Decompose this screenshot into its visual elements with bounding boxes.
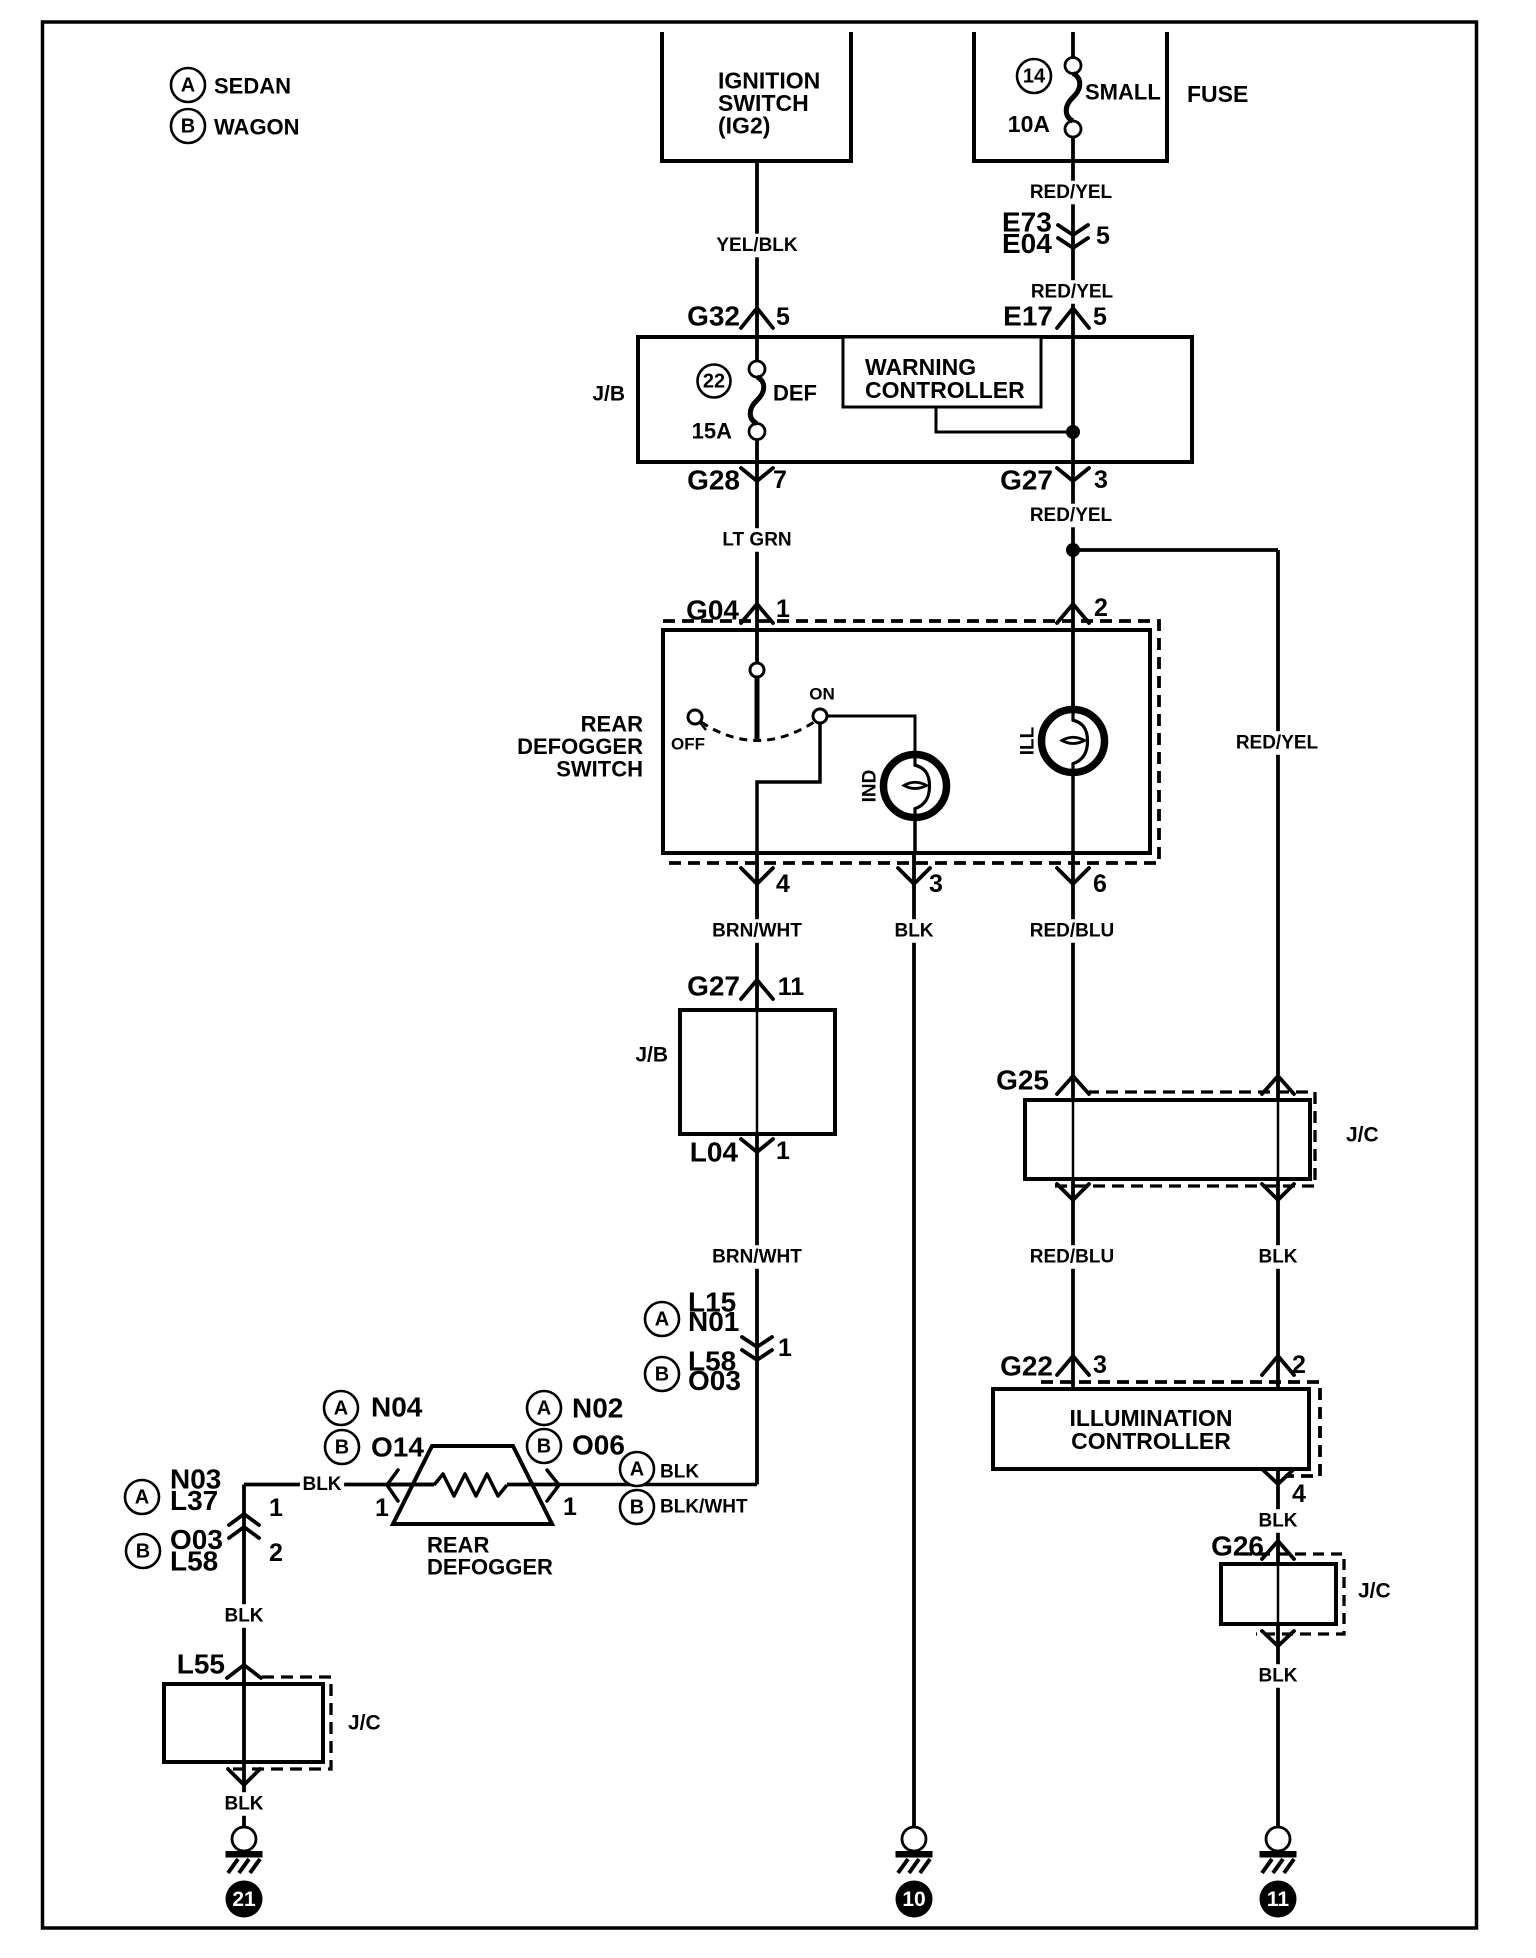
svg-text:O03: O03 [688,1365,741,1396]
svg-text:1: 1 [269,1494,283,1522]
svg-text:J/C: J/C [348,1712,381,1735]
svg-text:BLK: BLK [224,1794,263,1815]
svg-text:11: 11 [778,973,805,1001]
svg-text:O14: O14 [371,1432,424,1463]
svg-text:RED/BLU: RED/BLU [1030,921,1114,942]
svg-text:J/B: J/B [635,1044,668,1067]
svg-text:OFF: OFF [671,735,705,754]
svg-text:A: A [655,1309,669,1331]
svg-text:A: A [537,1398,551,1420]
svg-text:J/B: J/B [592,383,625,406]
svg-text:B: B [630,1497,644,1519]
svg-text:10: 10 [902,1888,925,1911]
svg-text:YEL/BLK: YEL/BLK [716,235,798,256]
svg-text:(IG2): (IG2) [718,113,770,139]
svg-text:6: 6 [1093,870,1107,898]
svg-text:RED/YEL: RED/YEL [1031,282,1114,303]
svg-text:3: 3 [1094,466,1108,494]
svg-text:4: 4 [1292,1480,1306,1508]
svg-text:RED/YEL: RED/YEL [1030,505,1113,526]
svg-text:3: 3 [1093,1351,1107,1379]
svg-text:RED/YEL: RED/YEL [1030,182,1113,203]
svg-text:CONTROLLER: CONTROLLER [1071,1428,1231,1454]
svg-text:BLK: BLK [1258,1511,1297,1532]
svg-text:15A: 15A [692,419,732,444]
svg-text:DEF: DEF [773,381,817,406]
svg-text:22: 22 [703,371,725,393]
svg-text:N02: N02 [572,1393,623,1424]
svg-text:1: 1 [778,1334,792,1362]
svg-text:4: 4 [776,870,790,898]
svg-text:REAR: REAR [581,712,643,737]
svg-text:WAGON: WAGON [214,115,300,140]
svg-text:E04: E04 [1002,228,1052,259]
svg-text:RED/YEL: RED/YEL [1236,733,1319,754]
svg-text:N01: N01 [688,1306,739,1337]
svg-text:IND: IND [860,770,881,803]
svg-text:G25: G25 [996,1065,1049,1096]
svg-text:1: 1 [563,1493,577,1521]
svg-text:SEDAN: SEDAN [214,74,291,99]
svg-text:G27: G27 [1000,465,1053,496]
svg-text:G28: G28 [687,465,740,496]
svg-text:21: 21 [232,1888,256,1911]
svg-text:ILL: ILL [1018,726,1039,755]
svg-text:A: A [181,75,195,97]
svg-text:BRN/WHT: BRN/WHT [712,921,802,942]
svg-text:J/C: J/C [1358,1580,1391,1603]
svg-text:FUSE: FUSE [1187,81,1248,107]
svg-text:BLK: BLK [1258,1247,1297,1268]
svg-text:E17: E17 [1003,301,1053,332]
svg-text:2: 2 [269,1539,283,1567]
svg-text:N04: N04 [371,1392,423,1423]
svg-text:L58: L58 [170,1546,218,1577]
svg-text:G32: G32 [687,301,740,332]
svg-text:G22: G22 [1000,1351,1053,1382]
svg-text:11: 11 [1267,1888,1290,1911]
svg-text:RED/BLU: RED/BLU [1030,1247,1114,1268]
svg-text:2: 2 [1292,1351,1306,1379]
svg-text:SWITCH: SWITCH [556,757,643,782]
svg-text:BLK: BLK [302,1474,341,1495]
svg-text:3: 3 [929,870,943,898]
svg-text:BLK: BLK [894,921,933,942]
svg-text:1: 1 [776,595,790,623]
svg-text:B: B [655,1364,669,1386]
svg-text:B: B [136,1541,150,1563]
svg-text:BLK: BLK [224,1606,263,1627]
svg-text:1: 1 [375,1494,389,1522]
svg-text:L04: L04 [690,1137,739,1168]
svg-text:1: 1 [776,1137,790,1165]
svg-text:DEFOGGER: DEFOGGER [427,1555,553,1580]
svg-text:5: 5 [1096,222,1110,250]
svg-text:ON: ON [809,685,835,704]
svg-text:14: 14 [1023,66,1046,88]
svg-text:B: B [181,116,195,138]
svg-text:BRN/WHT: BRN/WHT [712,1247,802,1268]
svg-text:A: A [630,1459,644,1481]
svg-text:2: 2 [1094,594,1108,622]
svg-text:J/C: J/C [1346,1124,1379,1147]
svg-text:A: A [334,1398,348,1420]
svg-text:G27: G27 [687,971,740,1002]
svg-text:5: 5 [1093,303,1107,331]
svg-text:A: A [135,1487,149,1509]
svg-text:7: 7 [773,466,787,494]
svg-text:G26: G26 [1211,1531,1264,1562]
svg-text:10A: 10A [1008,111,1050,137]
svg-text:L37: L37 [170,1485,218,1516]
svg-text:B: B [335,1437,349,1459]
svg-text:LT GRN: LT GRN [722,530,791,551]
svg-text:CONTROLLER: CONTROLLER [865,377,1025,403]
svg-text:B: B [537,1436,551,1458]
svg-text:SMALL: SMALL [1085,80,1161,105]
svg-text:L55: L55 [177,1649,225,1680]
svg-text:BLK: BLK [1258,1666,1297,1687]
svg-text:BLK/WHT: BLK/WHT [660,1497,748,1518]
svg-text:5: 5 [776,303,790,331]
svg-text:DEFOGGER: DEFOGGER [517,734,643,759]
svg-text:O06: O06 [572,1430,625,1461]
svg-text:BLK: BLK [660,1462,699,1483]
